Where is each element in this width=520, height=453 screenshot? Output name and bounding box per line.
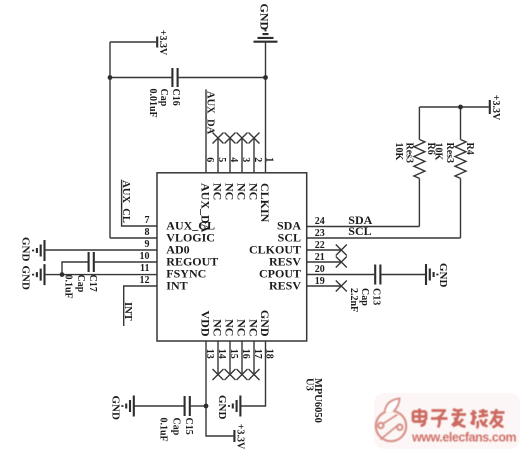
power +3.3V bottom bar [233,430,235,442]
watermark Chinese text you (友) [490,409,505,428]
wire pin9 AD0 to GND [45,249,158,251]
watermark Chinese text zi (子) [431,411,448,428]
wire pin8 VLOGIC to +3.3V rail [110,237,157,239]
junction on +3.3V rail at C16 [108,75,113,80]
wire pin7 AUX_CL [122,180,157,226]
capacitor C17 plates [89,252,94,272]
svg-text:R4: R4 [464,143,475,155]
no-connect X pin19 [336,281,347,292]
pin 4 no-connect line [229,138,231,173]
wire +3.3V vertical rail left [109,42,111,238]
svg-text:11: 11 [140,263,149,274]
wire pin10 REGOUT to C17 [95,261,157,263]
wire C15 left to GND [134,405,184,407]
resistor R4 body [455,107,466,238]
ground symbol left upper (AD0) [33,240,44,261]
svg-text:AUX_CL: AUX_CL [120,180,131,223]
pin 19 no-connect stub [307,285,341,287]
svg-text:2.2nF: 2.2nF [348,288,359,312]
wire C16 right to GND net [179,77,266,79]
svg-text:MPU6050: MPU6050 [312,378,323,423]
svg-text:10K: 10K [432,143,443,161]
svg-text:C16: C16 [170,89,181,106]
wire pin13 VDD down [205,341,207,406]
junction CLKIN / C16 [263,75,268,80]
wire pin6 AUX_DA [205,89,207,173]
pin 15 no-connect line [229,341,231,375]
pin 22 no-connect stub [307,249,341,251]
svg-text:20: 20 [315,264,325,275]
svg-text:NC: NC [211,183,225,200]
svg-text:GND: GND [110,396,122,421]
svg-text:GND: GND [258,4,272,31]
wire C16 left [110,77,171,79]
svg-text:10K: 10K [393,143,404,161]
svg-text:AUX_DA: AUX_DA [199,183,213,233]
no-connect X pin3 [237,133,248,144]
svg-text:0.01uF: 0.01uF [147,89,158,118]
wire resistor tops to +3.3V [419,106,488,108]
power +3.3V top-left bar [156,37,158,48]
watermark logo circle [376,399,406,442]
pin 5 no-connect line [217,138,219,173]
wire C15 to junction [191,405,206,407]
svg-text:Res3: Res3 [403,143,414,164]
svg-text:7: 7 [145,215,150,226]
svg-text:+3.3V: +3.3V [157,30,168,56]
svg-text:Cap: Cap [158,89,169,107]
wire GND to pin1 CLKIN [265,42,267,173]
power +3.3V top-right bar [489,100,491,114]
svg-text:GND: GND [20,237,32,262]
wire pin11 FSYNC to GND [45,274,158,276]
pin 16 no-connect line [241,341,243,375]
svg-text:Cap: Cap [171,418,182,436]
ground symbol right (C13) [426,264,437,285]
wire pin20 CPOUT to C13 [307,274,374,276]
svg-text:0.1uF: 0.1uF [62,275,73,299]
wire pin23 SCL [307,237,461,239]
junction C17 / FSYNC [60,272,65,277]
no-connect X pin22 [336,245,347,256]
no-connect X pin14 [213,369,224,380]
svg-text:AUX_DA: AUX_DA [204,91,215,135]
svg-text:C15: C15 [183,418,194,435]
svg-text:GND: GND [20,266,32,291]
wire pin12 INT [124,286,157,326]
wire C13 to GND [381,274,426,276]
junction R4 top [458,105,463,110]
svg-text:CLKIN: CLKIN [258,183,272,223]
capacitor C13 plates [375,265,380,285]
pin 17 no-connect line [253,341,255,375]
watermark Chinese text fa (发) [452,409,467,427]
svg-text:INT: INT [166,279,187,293]
svg-text:24: 24 [315,216,325,227]
svg-text:Cap: Cap [75,275,86,293]
wire C17 left and stub down [62,262,88,275]
no-connect X pin4 [225,133,236,144]
watermark blur filter [0,0,1,1]
pin 14 no-connect line [217,341,219,375]
svg-text:8: 8 [145,227,150,238]
no-connect X pin15 [225,369,236,380]
svg-text:C17: C17 [87,275,98,292]
pin 3 no-connect line [241,138,243,173]
capacitor C15 plates [185,396,190,416]
svg-text:12: 12 [140,275,150,286]
svg-text:C13: C13 [371,288,382,305]
svg-text:Cap: Cap [359,288,370,306]
svg-text:INT: INT [122,302,133,321]
svg-text:9: 9 [145,239,150,250]
svg-text:Res3: Res3 [444,143,455,164]
svg-text:+3.3V: +3.3V [490,95,501,121]
pin 2 no-connect line [253,138,255,173]
svg-text:www.elecfans.com: www.elecfans.com [411,431,517,445]
ground symbol bottom middle (pin18) [229,396,240,417]
watermark Chinese text dian (电) [413,409,426,426]
junction VDD / C15 / +3.3V [204,404,209,409]
resistor R6 body [414,107,425,227]
svg-text:+3.3V: +3.3V [234,424,245,450]
ground symbol bottom left (C15) [122,396,133,417]
watermark Chinese text shao (烧) [471,409,489,428]
no-connect X pin17 [249,369,260,380]
svg-text:NC: NC [223,183,237,200]
no-connect X pin2 [249,133,260,144]
wire pin18 GND down and left [240,341,265,406]
pin 21 no-connect stub [307,261,341,263]
svg-text:GND: GND [258,310,272,337]
wire +3.3V top-left horizontal [110,41,156,43]
watermark background wash [374,393,520,449]
ground symbol left lower (FSYNC) [33,264,44,285]
no-connect X pin5 [213,133,224,144]
wire VDD to +3.3V bottom [206,406,233,436]
no-connect X pin16 [237,369,248,380]
svg-text:10: 10 [140,251,150,262]
svg-text:RESV: RESV [269,279,301,293]
no-connect X pin21 [336,257,347,268]
ground symbol top (CLKIN net) [254,30,278,41]
capacitor C16 plates [172,68,177,87]
svg-text:GND: GND [437,263,449,288]
wire pin24 SDA [307,226,419,228]
svg-text:GND: GND [216,395,228,420]
svg-text:0.1uF: 0.1uF [157,418,168,442]
svg-text:SCL: SCL [348,224,371,238]
IC U3 MPU6050 body rectangle [157,173,307,341]
svg-text:NC: NC [223,319,237,336]
svg-text:NC: NC [211,319,225,336]
svg-text:VDD: VDD [199,311,213,337]
